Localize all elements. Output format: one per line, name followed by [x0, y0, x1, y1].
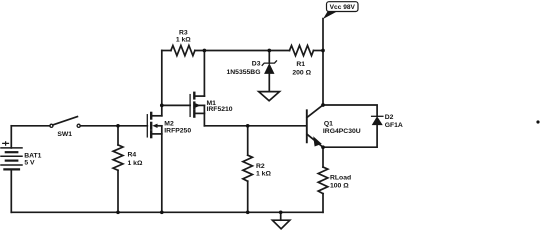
svg-text:GF1A: GF1A [385, 122, 403, 129]
svg-text:IRG4PC30U: IRG4PC30U [323, 128, 361, 135]
svg-text:Vcc 98V: Vcc 98V [330, 4, 356, 11]
svg-text:IRF5210: IRF5210 [207, 106, 233, 113]
svg-text:R3: R3 [179, 30, 188, 37]
svg-text:BAT1: BAT1 [24, 153, 41, 160]
svg-text:1N5355BG: 1N5355BG [226, 69, 260, 76]
svg-text:100 Ω: 100 Ω [330, 183, 349, 190]
svg-text:IRFP250: IRFP250 [164, 127, 191, 134]
svg-text:R4: R4 [128, 152, 137, 159]
svg-text:1 kΩ: 1 kΩ [128, 160, 143, 167]
svg-text:SW1: SW1 [57, 131, 72, 138]
svg-text:Q1: Q1 [324, 121, 333, 128]
svg-text:200 Ω: 200 Ω [292, 70, 311, 77]
svg-text:1 kΩ: 1 kΩ [256, 171, 271, 178]
svg-text:R1: R1 [296, 61, 305, 68]
svg-text:1 kΩ: 1 kΩ [176, 37, 191, 44]
svg-text:R2: R2 [256, 163, 265, 170]
svg-text:D3: D3 [252, 61, 261, 68]
svg-text:D2: D2 [385, 114, 394, 121]
svg-text:RLoad: RLoad [330, 174, 351, 181]
svg-text:5 V: 5 V [24, 160, 35, 167]
